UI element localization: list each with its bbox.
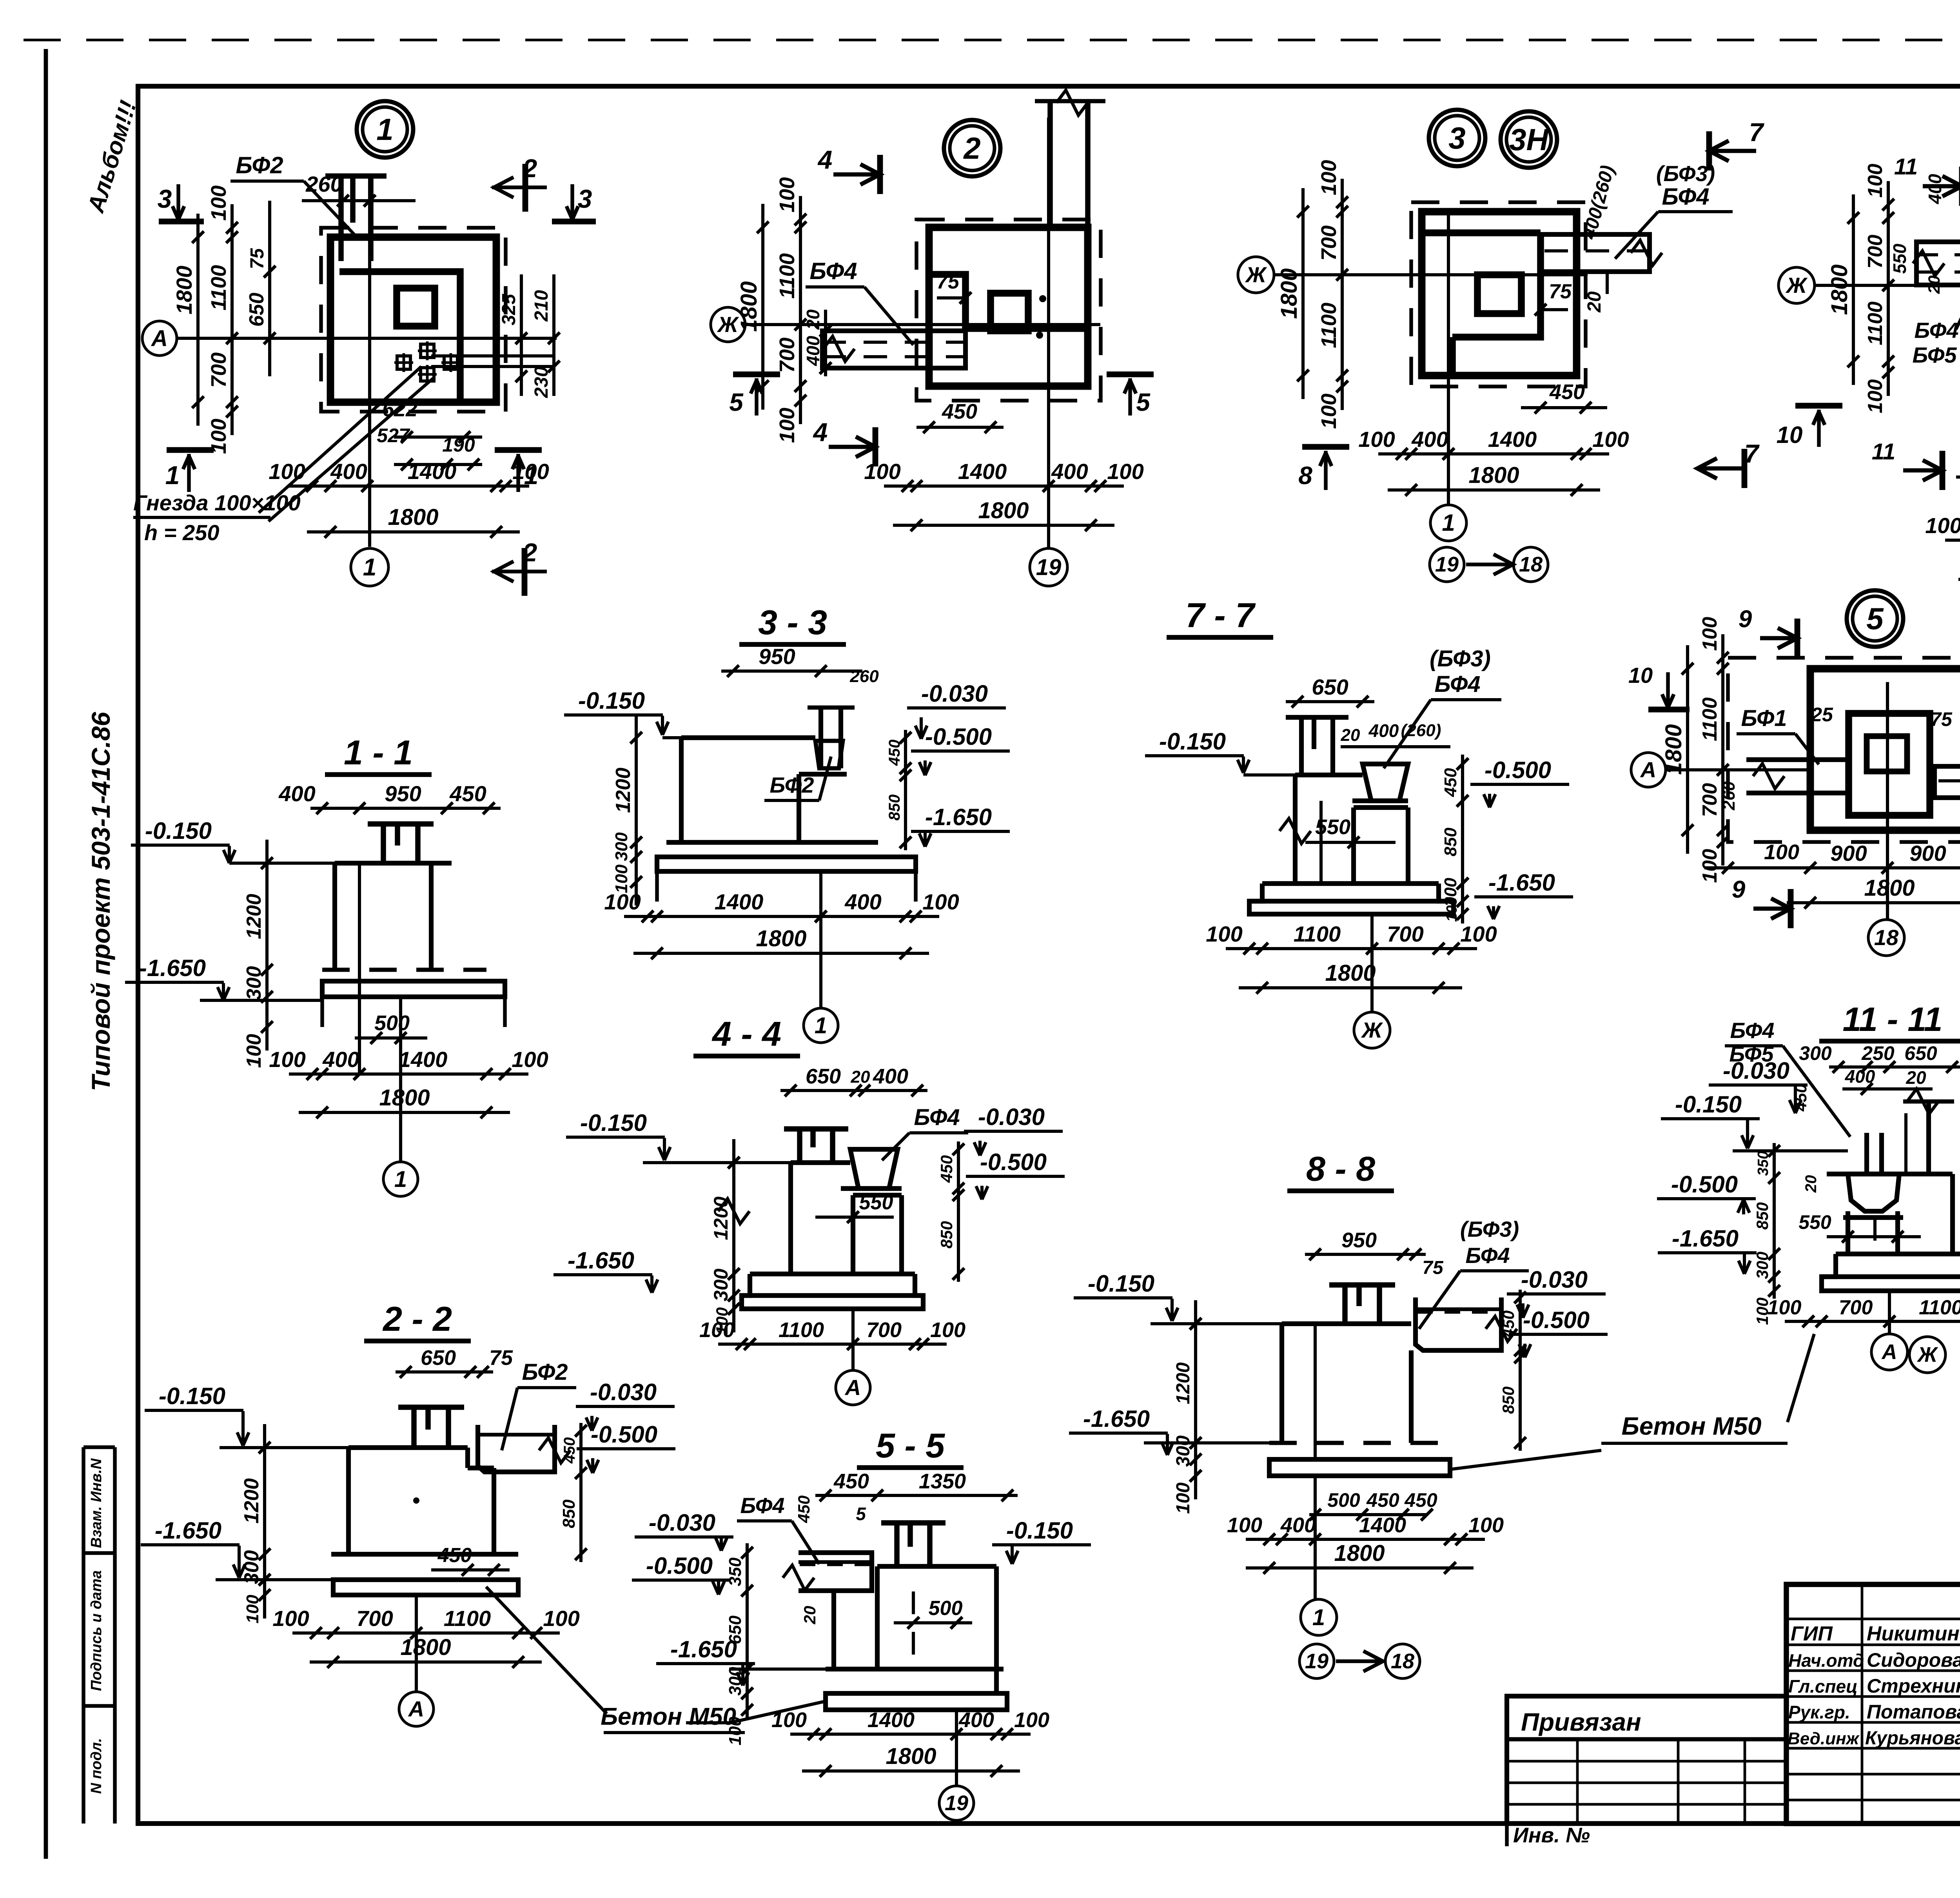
svg-text:18: 18 bbox=[1391, 1649, 1414, 1673]
plan 3 foundation body (thick) bbox=[1422, 212, 1577, 376]
svg-text:300: 300 bbox=[1753, 1252, 1771, 1279]
svg-text:-1.650: -1.650 bbox=[1083, 1406, 1150, 1432]
section 5-5 dim 500 bbox=[894, 1621, 972, 1624]
plan 1 left dim chain 1800 bbox=[196, 214, 200, 426]
plan 2 dim 20-400 rotated bbox=[824, 310, 827, 376]
svg-text:75: 75 bbox=[247, 248, 268, 269]
svg-text:850: 850 bbox=[1753, 1202, 1771, 1230]
svg-text:450: 450 bbox=[833, 1470, 869, 1493]
svg-text:700: 700 bbox=[207, 352, 230, 388]
svg-text:1800: 1800 bbox=[388, 504, 438, 530]
plan 1 inner dim chain 650-75 bbox=[268, 201, 271, 376]
svg-text:1400: 1400 bbox=[399, 1047, 448, 1072]
svg-text:БФ4: БФ4 bbox=[1465, 1243, 1510, 1268]
bound table grid bbox=[1576, 1739, 1579, 1824]
svg-text:260: 260 bbox=[849, 667, 879, 686]
svg-text:1800: 1800 bbox=[1864, 875, 1915, 901]
section 5-5 column stub bbox=[881, 1520, 946, 1526]
svg-text:-0.150: -0.150 bbox=[1006, 1517, 1073, 1544]
plan 1 inner pier step bbox=[339, 272, 460, 402]
section 3-3 top dim 950 bbox=[721, 670, 833, 673]
plan 1 vertical axis line bbox=[368, 176, 371, 547]
svg-text:4: 4 bbox=[813, 417, 828, 446]
plan 3 beam to right (БФ3/БФ4) bbox=[1540, 234, 1650, 272]
svg-text:100: 100 bbox=[930, 1318, 965, 1342]
svg-text:3: 3 bbox=[1448, 121, 1465, 155]
svg-text:1: 1 bbox=[376, 112, 393, 147]
section 4-4 pier body bbox=[791, 1160, 850, 1165]
svg-text:300: 300 bbox=[240, 1550, 263, 1584]
svg-text:5: 5 bbox=[856, 1504, 866, 1524]
svg-text:450: 450 bbox=[437, 1544, 472, 1567]
svg-text:-0.030: -0.030 bbox=[978, 1104, 1045, 1130]
svg-text:100: 100 bbox=[1460, 922, 1497, 946]
svg-text:100: 100 bbox=[243, 1595, 262, 1624]
svg-text:11 - 11: 11 - 11 bbox=[1843, 1001, 1943, 1038]
svg-text:100: 100 bbox=[1925, 513, 1960, 538]
svg-text:100: 100 bbox=[243, 1034, 265, 1068]
svg-text:100: 100 bbox=[775, 408, 799, 443]
plan 5 bottom dim chain 100-900-900-100 bbox=[1704, 866, 1960, 869]
svg-text:1800: 1800 bbox=[1827, 264, 1852, 315]
svg-text:100: 100 bbox=[1206, 922, 1242, 946]
section 4-4 left dim chain 1200-300-100 bbox=[732, 1139, 735, 1332]
section 3-3 foundation slab bbox=[666, 840, 878, 845]
section 3-3 column with bedplate bbox=[818, 708, 823, 768]
svg-text:850: 850 bbox=[1441, 827, 1460, 856]
svg-text:400: 400 bbox=[1368, 720, 1399, 741]
plan 1 foundation body (thick) bbox=[330, 237, 496, 402]
plan 1 dim 622-527-190 bbox=[394, 435, 482, 439]
svg-text:450: 450 bbox=[1549, 380, 1585, 404]
section 2-2 axis line and circle А bbox=[415, 1595, 418, 1691]
section 7-7 column stub left bbox=[1286, 715, 1348, 720]
plan 3 dim 450 bbox=[1521, 406, 1607, 409]
plan 2 left dim chain 1800 bbox=[761, 204, 764, 410]
svg-text:622: 622 bbox=[382, 397, 417, 421]
svg-text:Ж: Ж bbox=[1245, 262, 1267, 287]
left column strip lines bbox=[82, 1447, 85, 1824]
svg-text:20: 20 bbox=[1341, 726, 1360, 745]
svg-text:1800: 1800 bbox=[1661, 724, 1686, 775]
svg-text:100: 100 bbox=[1864, 379, 1887, 414]
svg-text:650: 650 bbox=[1312, 675, 1348, 699]
svg-text:1100: 1100 bbox=[1699, 697, 1721, 741]
svg-text:Привязан: Привязан bbox=[1521, 1708, 1641, 1736]
plan 1 cut mark 3 down left bbox=[159, 219, 204, 225]
plan 4 bottom dim 1800 bbox=[1958, 578, 1960, 581]
plan 4 bottom dim chain 100-900-900-100 bbox=[1945, 539, 1960, 542]
section 11-11 right dim chain 350-850-300-100 bbox=[1773, 1143, 1776, 1299]
svg-text:(БФ3): (БФ3) bbox=[1430, 646, 1491, 671]
svg-text:Подпись и дата: Подпись и дата bbox=[88, 1570, 105, 1691]
section 1-1 dashed foundation top bbox=[322, 968, 486, 972]
svg-text:БФ4: БФ4 bbox=[740, 1493, 784, 1518]
svg-text:950: 950 bbox=[759, 644, 795, 669]
plan 1 bottom dim chain 100-400-1400-100 bbox=[289, 484, 529, 488]
svg-text:100: 100 bbox=[512, 1047, 548, 1072]
plan 2 cut mark 5 left bbox=[733, 372, 780, 377]
section 2-2 top dim 650-75 bbox=[396, 1370, 493, 1374]
svg-text:8 - 8: 8 - 8 bbox=[1306, 1149, 1375, 1188]
svg-text:7 - 7: 7 - 7 bbox=[1185, 596, 1256, 635]
svg-text:850: 850 bbox=[1499, 1386, 1517, 1414]
section 7-7 breakmark on left edge bbox=[1279, 818, 1311, 844]
svg-text:2: 2 bbox=[963, 131, 980, 165]
plan 5 foundation slab outline (dashed) bbox=[1728, 658, 1960, 842]
plan 1 anchor sockets bbox=[397, 356, 410, 369]
svg-text:Потапова: Потапова bbox=[1867, 1701, 1960, 1723]
svg-text:9: 9 bbox=[1732, 876, 1746, 903]
svg-text:1800: 1800 bbox=[1325, 960, 1376, 986]
svg-text:400: 400 bbox=[844, 889, 881, 914]
svg-text:1800: 1800 bbox=[400, 1635, 451, 1660]
svg-text:-0.500: -0.500 bbox=[1523, 1307, 1590, 1333]
svg-text:450: 450 bbox=[1404, 1489, 1437, 1511]
plan 5 axis line horizontal bbox=[1666, 768, 1813, 771]
svg-text:25: 25 bbox=[1811, 704, 1833, 726]
svg-text:1800: 1800 bbox=[1334, 1541, 1385, 1566]
section 7-7 bedplate trapezoid bbox=[1363, 764, 1408, 801]
section 2-2 bottom dim chain 100-700-1100-100 bbox=[292, 1631, 560, 1635]
svg-text:(БФ3): (БФ3) bbox=[1460, 1217, 1519, 1241]
svg-text:1100: 1100 bbox=[1864, 301, 1887, 345]
svg-text:100: 100 bbox=[775, 177, 799, 212]
svg-text:11: 11 bbox=[1894, 154, 1918, 180]
svg-text:75: 75 bbox=[489, 1346, 513, 1370]
svg-text:1100: 1100 bbox=[1294, 922, 1341, 946]
section 1-1 column stub bbox=[368, 821, 434, 827]
plan 3 vertical axis line bbox=[1447, 212, 1450, 506]
svg-text:-0.500: -0.500 bbox=[1485, 757, 1551, 783]
section 2-2 dashed centerline bbox=[413, 1497, 419, 1504]
svg-text:1: 1 bbox=[1442, 510, 1455, 536]
svg-text:-0.150: -0.150 bbox=[578, 688, 645, 714]
svg-text:900: 900 bbox=[1830, 841, 1867, 866]
svg-text:450: 450 bbox=[942, 400, 977, 423]
section 8-8 beton leader from slab bbox=[1452, 1450, 1601, 1469]
plan 3 cut mark 7 top-right bbox=[1709, 149, 1756, 153]
section 2-2 beton leader from slab bbox=[486, 1587, 607, 1714]
svg-text:А: А bbox=[844, 1375, 861, 1400]
plan detail 3Н marker circle bbox=[1501, 111, 1557, 168]
plan 5 beam БФ1 from left bbox=[1746, 757, 1849, 762]
svg-text:5: 5 bbox=[1136, 388, 1151, 416]
svg-text:Ж: Ж bbox=[1916, 1343, 1938, 1366]
section 2-2 beam БФ2 seat right bbox=[478, 1425, 555, 1472]
svg-text:100: 100 bbox=[1358, 427, 1395, 452]
svg-text:400: 400 bbox=[330, 459, 367, 484]
section 7-7 bottom dim 1800 bbox=[1239, 986, 1462, 989]
svg-text:350: 350 bbox=[726, 1557, 745, 1586]
svg-text:850: 850 bbox=[937, 1221, 956, 1248]
svg-text:19: 19 bbox=[1435, 553, 1459, 576]
svg-text:100: 100 bbox=[269, 459, 305, 484]
plan 2 foundation slab outline (dashed) bbox=[916, 220, 1101, 401]
plan 1 right dim chain 325-210-230 bbox=[520, 274, 523, 396]
svg-text:100: 100 bbox=[1864, 164, 1887, 198]
svg-text:100: 100 bbox=[1107, 459, 1143, 484]
svg-text:-1.650: -1.650 bbox=[568, 1247, 634, 1274]
svg-text:700: 700 bbox=[775, 338, 799, 373]
svg-text:550: 550 bbox=[1798, 1211, 1831, 1233]
section 4-4 column stub bbox=[784, 1126, 848, 1132]
svg-text:260: 260 bbox=[305, 172, 342, 196]
plan 2 dim 450 bbox=[916, 426, 1004, 429]
section 2-2 dim 450 bbox=[431, 1568, 510, 1571]
svg-text:1400: 1400 bbox=[1359, 1513, 1406, 1537]
svg-text:Ж: Ж bbox=[1785, 273, 1808, 298]
svg-text:1100: 1100 bbox=[1317, 303, 1341, 348]
svg-text:325: 325 bbox=[499, 294, 519, 325]
svg-text:700: 700 bbox=[1387, 922, 1423, 946]
svg-text:-1.650: -1.650 bbox=[925, 804, 992, 830]
section 2-2 foundation top line bbox=[331, 1552, 518, 1557]
plan 1 left dim chain 100-1100-700-100 bbox=[230, 204, 234, 435]
svg-text:А: А bbox=[1640, 757, 1656, 782]
plan 1 column socket square bbox=[397, 288, 435, 326]
svg-text:-0.500: -0.500 bbox=[980, 1149, 1047, 1175]
svg-text:450: 450 bbox=[1366, 1489, 1399, 1511]
section 2-2 pier step below beam bbox=[468, 1466, 494, 1470]
section 11-11 column top with break bbox=[1903, 1100, 1954, 1104]
plan 3 column socket square bbox=[1477, 275, 1521, 314]
plan 3 bottom dim 1800 bbox=[1388, 488, 1600, 492]
svg-text:100: 100 bbox=[269, 1047, 305, 1072]
svg-text:2: 2 bbox=[522, 538, 537, 567]
section 3-3 foundation top line bbox=[662, 736, 681, 739]
bound table row Инв. N bbox=[1505, 1824, 1508, 1846]
svg-text:1: 1 bbox=[165, 461, 180, 490]
svg-text:БФ1: БФ1 bbox=[1741, 706, 1787, 731]
svg-text:1 - 1: 1 - 1 bbox=[344, 733, 413, 772]
plan detail 1 marker circle bbox=[357, 101, 413, 158]
svg-text:-0.030: -0.030 bbox=[649, 1510, 715, 1536]
svg-text:1400: 1400 bbox=[867, 1708, 915, 1732]
plan 1 cut mark 3 right bbox=[552, 219, 596, 225]
plan 3 bottom dim chain 100-400-1400-100 bbox=[1378, 452, 1609, 455]
svg-text:А: А bbox=[151, 326, 168, 351]
section 5-5 axis line and circle 19 bbox=[955, 1710, 958, 1786]
svg-text:20: 20 bbox=[851, 1067, 870, 1087]
svg-text:-0.030: -0.030 bbox=[921, 680, 988, 707]
svg-text:550: 550 bbox=[1315, 815, 1350, 839]
section 7-7 bottom dim chain 100-1100-700-100 bbox=[1226, 947, 1477, 950]
section 4-4 foundation steps bbox=[750, 1272, 915, 1276]
plan 2 bottom dim chain 100-1400-400-100 bbox=[884, 484, 1124, 488]
svg-text:10: 10 bbox=[1777, 422, 1803, 448]
svg-text:450: 450 bbox=[937, 1155, 956, 1183]
plan 5 bottom dim 1800 bbox=[1787, 901, 1960, 904]
svg-text:100: 100 bbox=[922, 889, 959, 914]
section 4-4 breakmark on left chain bbox=[718, 1199, 750, 1224]
svg-text:700: 700 bbox=[1699, 783, 1721, 817]
svg-text:1200: 1200 bbox=[1173, 1362, 1194, 1404]
section 2-2 right dim chain 450-20-850 bbox=[579, 1423, 583, 1562]
svg-text:20: 20 bbox=[800, 1606, 819, 1625]
svg-text:19: 19 bbox=[1305, 1649, 1328, 1673]
plan 3 cut mark 8 bottom-left bbox=[1302, 444, 1349, 450]
svg-text:900: 900 bbox=[1909, 841, 1946, 866]
svg-text:-0.500: -0.500 bbox=[925, 724, 992, 750]
svg-text:700: 700 bbox=[866, 1318, 902, 1342]
section 4-4 top dim 650-20-400 bbox=[780, 1089, 927, 1092]
svg-text:1: 1 bbox=[815, 1013, 827, 1038]
svg-text:-0.030: -0.030 bbox=[1723, 1058, 1789, 1084]
plan detail 5 marker circle bbox=[1847, 590, 1903, 647]
svg-text:-1.650: -1.650 bbox=[139, 955, 206, 981]
svg-text:650: 650 bbox=[1904, 1042, 1937, 1064]
section 8-8 pier body bbox=[1282, 1321, 1411, 1326]
svg-text:75: 75 bbox=[1549, 280, 1572, 303]
plan 1 axis circle A bbox=[142, 321, 177, 356]
svg-text:1800: 1800 bbox=[172, 266, 196, 315]
section 11-11 foundation steps bbox=[1822, 1254, 1960, 1291]
section 11-11 beton leader to slab bbox=[1788, 1334, 1814, 1422]
svg-text:1800: 1800 bbox=[1276, 268, 1302, 319]
section 3-3 pier body bbox=[681, 735, 815, 740]
title block outer border bbox=[1786, 1584, 1960, 1824]
plan 1 axis circle 1 bottom bbox=[351, 548, 388, 586]
plan 4 axis circle Ж bbox=[1779, 267, 1815, 303]
svg-text:20: 20 bbox=[1802, 1175, 1820, 1193]
svg-text:75: 75 bbox=[1930, 708, 1953, 730]
svg-text:100: 100 bbox=[207, 185, 230, 221]
svg-text:100: 100 bbox=[1227, 1513, 1262, 1537]
plan 5 foundation body (thick) bbox=[1810, 669, 1960, 830]
plan 5 left dim chain 100-1100-700-100 bbox=[1721, 634, 1724, 866]
svg-text:-1.650: -1.650 bbox=[155, 1517, 221, 1544]
plan 2 bottom dim 1800 bbox=[893, 524, 1114, 527]
section 4-4 right dim chain 450-20-850 bbox=[957, 1141, 960, 1282]
plan 5 axis circle 18 bottom bbox=[1868, 920, 1904, 956]
section 1-1 top dim chain 400-950-450 bbox=[310, 807, 501, 810]
svg-text:400: 400 bbox=[1051, 459, 1088, 484]
svg-text:БФ4: БФ4 bbox=[1914, 318, 1958, 343]
svg-text:БФ2: БФ2 bbox=[522, 1359, 568, 1385]
svg-text:20: 20 bbox=[803, 309, 823, 330]
svg-text:-0.150: -0.150 bbox=[145, 818, 212, 844]
plan 1 socket leader lines bbox=[259, 367, 421, 513]
svg-text:450: 450 bbox=[795, 1495, 813, 1523]
plan 3 foundation slab outline (dashed) bbox=[1411, 202, 1586, 386]
svg-text:4: 4 bbox=[817, 145, 833, 174]
section 3-3 right dim chain 450-20-850 bbox=[904, 730, 907, 850]
section 8-8 beam БФ4 seat right bbox=[1416, 1297, 1501, 1350]
section 7-7 foundation steps bbox=[1262, 881, 1439, 886]
svg-text:19: 19 bbox=[1036, 555, 1062, 580]
svg-text:7: 7 bbox=[1744, 439, 1760, 468]
svg-text:19: 19 bbox=[945, 1791, 968, 1815]
svg-text:1400: 1400 bbox=[408, 459, 457, 484]
svg-text:-0.150: -0.150 bbox=[159, 1383, 225, 1409]
svg-text:400: 400 bbox=[803, 336, 823, 366]
svg-text:-0.150: -0.150 bbox=[580, 1110, 647, 1136]
section 11-11 dim 550 bbox=[1827, 1235, 1921, 1238]
svg-text:Типовой проект 503-1-41С.86: Типовой проект 503-1-41С.86 bbox=[86, 711, 115, 1091]
svg-text:А: А bbox=[1881, 1340, 1897, 1364]
section 1-1 bottom dim 1800 bbox=[299, 1111, 510, 1114]
svg-text:1800: 1800 bbox=[1468, 463, 1519, 488]
svg-text:1800: 1800 bbox=[886, 1744, 936, 1769]
svg-text:3Н: 3Н bbox=[1509, 122, 1549, 157]
svg-text:5 - 5: 5 - 5 bbox=[876, 1426, 945, 1465]
svg-text:400: 400 bbox=[322, 1047, 359, 1072]
svg-text:1100: 1100 bbox=[444, 1606, 491, 1631]
plan 5 left dim chain 1800 bbox=[1686, 645, 1689, 854]
section 2-2 foundation slab bbox=[333, 1580, 518, 1595]
section 7-7 pier body bbox=[1295, 773, 1363, 777]
plan 2 foundation body (thick) bbox=[929, 227, 1088, 386]
svg-text:1800: 1800 bbox=[736, 281, 762, 332]
plan 5 beam ФБ4 to right bbox=[1935, 766, 1960, 798]
svg-text:Сидорова: Сидорова bbox=[1867, 1649, 1960, 1671]
plan 1 bottom dim 1800 bbox=[307, 530, 520, 533]
plan 3 left dim chain 100-700-1100-100 bbox=[1341, 179, 1344, 410]
svg-text:850: 850 bbox=[559, 1499, 579, 1528]
plan 2 axis circle left bbox=[711, 307, 745, 342]
plan 3 axis circle 1 bbox=[1430, 505, 1466, 541]
plan 4 left dim chain 1800 bbox=[1852, 194, 1855, 385]
plan 1 cut mark 2 bottom-right bbox=[522, 548, 528, 596]
svg-text:БФ4: БФ4 bbox=[809, 258, 857, 284]
svg-text:400: 400 bbox=[1411, 427, 1448, 452]
plan 3 left dim chain 1800 bbox=[1301, 188, 1305, 399]
section 3-3 bottom dim 1800 bbox=[633, 952, 929, 955]
svg-text:1200: 1200 bbox=[240, 1478, 263, 1524]
section 5-5 left dim chain 350-650-300-100 bbox=[746, 1543, 749, 1719]
section 2-2 column stub bbox=[398, 1404, 464, 1410]
section 2-2 bottom dim 1800 bbox=[310, 1660, 542, 1664]
svg-text:7: 7 bbox=[1749, 118, 1765, 147]
svg-text:Бетон М50: Бетон М50 bbox=[1622, 1412, 1762, 1440]
plan 2 axis line horizontal bbox=[745, 323, 1100, 326]
svg-text:100: 100 bbox=[207, 419, 230, 454]
svg-text:9: 9 bbox=[1739, 606, 1752, 633]
svg-text:650: 650 bbox=[726, 1615, 745, 1644]
section 11-11 bottom dim chain 100-700-1100-100 bbox=[1785, 1320, 1960, 1323]
plan 4 left dim chain 100-700-1100-100 bbox=[1887, 181, 1890, 396]
section 8-8 bottom dim chain 100-400-1400-100 bbox=[1246, 1538, 1485, 1541]
svg-text:Гл.спец: Гл.спец bbox=[1788, 1676, 1858, 1697]
svg-text:БФ4: БФ4 bbox=[914, 1105, 960, 1130]
svg-text:700: 700 bbox=[1864, 235, 1887, 269]
title block signature grid bbox=[1861, 1584, 1864, 1824]
svg-text:1100: 1100 bbox=[779, 1318, 824, 1342]
svg-text:Стрехнин: Стрехнин bbox=[1867, 1675, 1960, 1697]
sheet outer scan edge top (dashed) bbox=[24, 39, 1960, 42]
plan 2 cut mark 4 top bbox=[833, 172, 880, 177]
svg-text:2: 2 bbox=[522, 154, 537, 183]
svg-text:БФ5: БФ5 bbox=[1912, 343, 1957, 367]
svg-text:N подл.: N подл. bbox=[88, 1738, 105, 1794]
svg-text:1100: 1100 bbox=[775, 253, 799, 299]
svg-text:h = 250: h = 250 bbox=[144, 520, 219, 545]
svg-text:450: 450 bbox=[1499, 1310, 1517, 1338]
section 4-4 bedplate trapezoid bbox=[850, 1149, 898, 1189]
section 8-8 left dim chain 1200-300-100 bbox=[1194, 1300, 1197, 1499]
svg-text:1200: 1200 bbox=[612, 768, 635, 813]
svg-text:БФ2: БФ2 bbox=[236, 152, 283, 178]
svg-text:400: 400 bbox=[278, 781, 315, 806]
svg-text:300: 300 bbox=[243, 966, 265, 1000]
plan 2 vertical axis line bbox=[1047, 118, 1050, 549]
svg-text:100: 100 bbox=[1173, 1482, 1194, 1514]
svg-text:300: 300 bbox=[1173, 1435, 1194, 1467]
plan 4 beam БФ4/БФ5 from left (in notch) bbox=[1916, 242, 1960, 285]
section 1-1 axis line and circle 1 bbox=[399, 997, 402, 1161]
svg-text:300: 300 bbox=[1799, 1042, 1832, 1064]
